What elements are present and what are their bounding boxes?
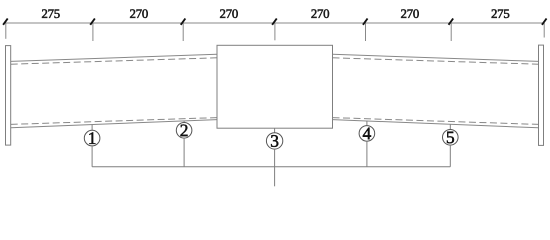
bottom flange dashed line, left half: [11, 118, 217, 125]
extension line 5: [365, 23, 367, 41]
dimension label 270 (segment 2): [130, 9, 148, 18]
circle 5 digit: [447, 132, 454, 144]
top flange dashed line, right half: [333, 58, 539, 64]
top flange solid line, right half: [333, 54, 539, 61]
dimension tick 1: [3, 19, 8, 25]
dimension tick 2: [90, 19, 95, 25]
dimension tick 6: [449, 19, 454, 25]
bottom flange dashed line, right half: [333, 118, 539, 125]
dimension tick 5: [363, 19, 368, 25]
extension line 1: [5, 23, 7, 39]
circle 1 digit: [89, 132, 95, 144]
bus line: [92, 166, 450, 168]
extension line 4: [274, 23, 276, 40]
circle 1: [84, 130, 100, 146]
center drop line: [274, 167, 276, 187]
drop line below circle 5: [449, 145, 451, 167]
extension line 7: [543, 23, 545, 38]
left end plate: [6, 46, 11, 146]
extension line 2: [92, 23, 94, 41]
drop line below circle 4: [366, 141, 368, 167]
dimension label 270 (segment 5): [401, 9, 419, 18]
circle 4: [359, 126, 375, 142]
leader above circle 4: [366, 121, 368, 126]
circle 4 digit: [363, 128, 371, 140]
dimension label 275 (segment 1): [42, 9, 60, 18]
dimension label 270 (segment 4): [311, 9, 329, 18]
circle 3: [266, 133, 282, 149]
bottom flange solid line, right half: [333, 120, 539, 128]
leader above circle 3: [274, 128, 276, 133]
leader above circle 1: [91, 125, 93, 131]
extension line 3: [182, 23, 184, 41]
top flange solid line, left half: [11, 54, 217, 61]
right end plate: [539, 45, 544, 145]
top flange dashed line, left half: [11, 58, 217, 64]
dimension tick 3: [181, 19, 186, 25]
dimension label 275 (segment 6): [492, 9, 510, 18]
leader above circle 2: [183, 121, 185, 123]
dimension line: [5, 22, 545, 24]
leader above circle 5: [449, 124, 451, 129]
drop line below circle 2: [183, 138, 185, 167]
dimension tick 4: [272, 19, 277, 25]
dimension label 270 (segment 3): [220, 9, 238, 18]
circle 5: [443, 130, 459, 146]
drop line below circle 1: [91, 146, 93, 167]
extension line 6: [450, 23, 452, 41]
drop line below circle 3: [274, 149, 276, 167]
circle 3 digit: [271, 135, 278, 147]
bottom flange solid line, left half: [11, 120, 217, 128]
circle 2: [176, 123, 192, 139]
circle 2 digit: [180, 125, 187, 137]
center block: [217, 45, 333, 128]
dimension tick 7: [542, 19, 547, 25]
